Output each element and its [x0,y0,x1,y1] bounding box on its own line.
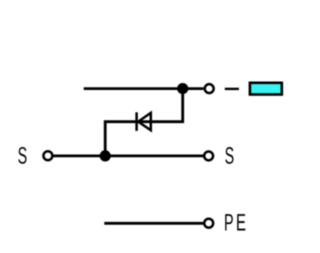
terminal: top clamp point (open circle) [205,84,214,93]
terminal: PE clamp point (open circle) [204,219,213,228]
node: junction on S bus [100,150,111,161]
wire: middle S bus [53,154,203,157]
diode D1: triangle (anode, pointing left) [138,113,151,130]
label: left S [18,147,26,164]
label: right S [225,147,233,164]
node: junction on top wire [177,83,188,94]
label: minus sign [225,88,239,90]
wire: top minus bus [84,87,204,90]
label: PE - letter P [225,214,233,230]
label: PE - letter E [237,214,245,230]
terminal: right S clamp point (open circle) [204,151,213,160]
wire: bottom PE line [104,222,203,225]
diode D1: cathode bar [135,112,138,131]
terminal: left S clamp point (open circle) [43,151,52,160]
component: cyan marker rectangle [250,83,282,95]
wire: branch from top junction down, left along diode row, down to S junction [105,89,183,156]
